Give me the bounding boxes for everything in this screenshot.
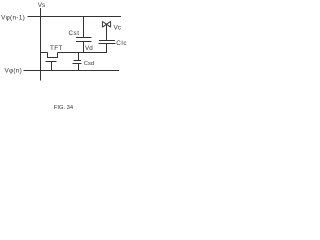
svg-text:Csd: Csd [84, 61, 94, 67]
svg-text:Vc: Vc [114, 24, 122, 31]
capacitor Cst [76, 38, 92, 42]
capacitor Csd [73, 61, 82, 64]
wire drain node Vd line [58, 52, 108, 54]
terminal Vc (bowtie symbol) [102, 21, 110, 27]
wire gate line Vphi(n-1) [28, 16, 122, 18]
svg-text:Vd: Vd [85, 45, 93, 52]
wire Clc bottom lead [106, 44, 108, 54]
wire Csd bottom lead [78, 64, 80, 71]
svg-text:Vs: Vs [38, 2, 45, 9]
svg-text:Clc: Clc [116, 40, 127, 47]
svg-text:Cst: Cst [69, 30, 80, 37]
wire Vs source column line [40, 8, 42, 81]
svg-text:FIG. 34: FIG. 34 [54, 105, 74, 111]
wire Vc terminal stem to Clc [106, 25, 108, 41]
wire Cst top lead [83, 17, 85, 38]
transistor TFT [41, 53, 59, 71]
capacitor Clc [99, 41, 116, 44]
svg-text:Vφ(n-1): Vφ(n-1) [1, 14, 25, 21]
svg-text:TFT: TFT [50, 45, 63, 52]
wire gate line Vphi(n) [24, 70, 120, 72]
svg-text:Vφ(n): Vφ(n) [5, 68, 22, 75]
wire Csd top lead [78, 53, 80, 61]
wire Cst bottom lead to node Vd [83, 42, 85, 54]
